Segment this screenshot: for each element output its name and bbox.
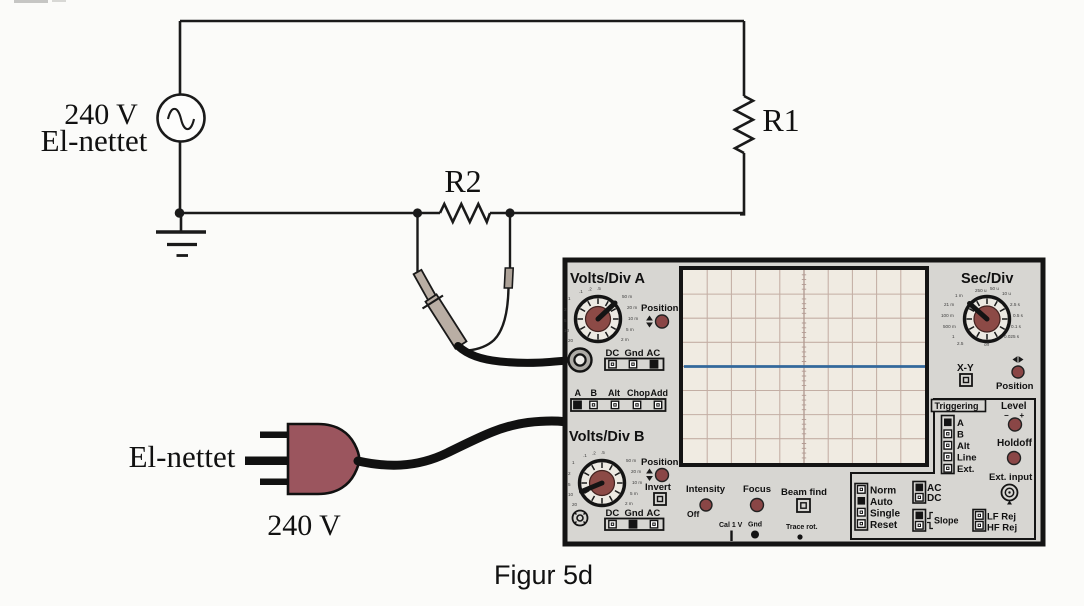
- svg-text:Figur 5d: Figur 5d: [494, 560, 593, 590]
- trigger mode column: [855, 484, 868, 531]
- ext input BNC: [1002, 485, 1018, 505]
- svg-text:240 V: 240 V: [267, 509, 341, 542]
- focus button: [751, 499, 764, 512]
- trigger coupling labels: [927, 483, 941, 504]
- svg-text:Volts/Div A: Volts/Div A: [570, 271, 645, 287]
- svg-text:.5: .5: [601, 450, 605, 455]
- probe ground wire from right node: [509, 213, 511, 268]
- svg-text:2.5 s: 2.5 s: [1010, 302, 1021, 307]
- svg-text:50 u: 50 u: [990, 286, 999, 291]
- position A arrows: [646, 316, 653, 328]
- svg-text:Alt: Alt: [957, 441, 971, 452]
- svg-text:A: A: [575, 388, 582, 398]
- ground: [156, 213, 206, 256]
- svg-text:Reset: Reset: [870, 520, 898, 531]
- svg-text:R1: R1: [762, 102, 799, 138]
- svg-text:20 m: 20 m: [627, 305, 637, 310]
- svg-text:Position: Position: [641, 303, 679, 314]
- scan smudge top left: [14, 0, 48, 3]
- mains plug prong bottom: [260, 479, 289, 486]
- svg-text:Triggering: Triggering: [935, 401, 979, 411]
- svg-text:2 m: 2 m: [621, 337, 629, 342]
- svg-text:1 m: 1 m: [955, 293, 963, 298]
- labels DC Gnd AC (ch A): [606, 348, 661, 359]
- svg-text:100 m: 100 m: [941, 313, 954, 318]
- node at source/ground: [175, 208, 185, 218]
- svg-text:1: 1: [572, 460, 575, 465]
- scope screen bezel: [681, 268, 927, 465]
- svg-text:R2: R2: [444, 163, 481, 199]
- svg-text:2: 2: [568, 471, 571, 476]
- svg-text:DC: DC: [927, 493, 941, 504]
- svg-text:Position: Position: [996, 381, 1034, 392]
- svg-text:Alt: Alt: [608, 388, 620, 398]
- wire left vertical lower: [179, 142, 182, 214]
- mains plug prong top: [260, 432, 289, 439]
- beam find button: [797, 499, 810, 512]
- svg-text:Gnd: Gnd: [748, 522, 762, 529]
- slope edge glyphs: [927, 513, 933, 529]
- probe A wire from left node: [416, 213, 418, 272]
- reject labels: [987, 512, 1017, 534]
- svg-text:21 m: 21 m: [944, 302, 954, 307]
- svg-text:10: 10: [568, 492, 574, 497]
- coupling bar B: [605, 519, 664, 531]
- labels DC Gnd AC (ch B): [606, 508, 661, 519]
- position A button: [656, 315, 669, 328]
- svg-text:−: −: [1004, 411, 1009, 420]
- svg-text:DC: DC: [606, 508, 620, 519]
- knob Volts/Div A: [576, 297, 621, 342]
- svg-text:10 u: 10 u: [1002, 291, 1011, 296]
- svg-text:Trace rot.: Trace rot.: [786, 524, 818, 531]
- intensity button: [700, 499, 712, 511]
- probe ground connector: [504, 268, 513, 288]
- wire left vertical upper: [179, 21, 182, 95]
- knob B tiny scale labels: [568, 450, 642, 507]
- svg-text:0.5 s: 0.5 s: [1013, 313, 1024, 318]
- svg-text:.2: .2: [592, 451, 596, 456]
- svg-text:10 m: 10 m: [628, 316, 638, 321]
- svg-text:.5: .5: [597, 286, 601, 291]
- svg-text:El-nettet: El-nettet: [41, 123, 148, 158]
- svg-text:20: 20: [568, 338, 574, 343]
- svg-text:Norm: Norm: [870, 486, 896, 497]
- resistor R2: [440, 204, 490, 222]
- svg-text:Off: Off: [687, 509, 699, 519]
- trigger L-box: [851, 399, 1035, 539]
- svg-text:Auto: Auto: [870, 497, 893, 508]
- svg-text:Invert: Invert: [645, 482, 672, 493]
- svg-text:Position: Position: [641, 457, 679, 468]
- svg-text:50 m: 50 m: [622, 294, 632, 299]
- holdoff button: [1008, 452, 1021, 465]
- wire top horizontal: [180, 20, 744, 23]
- svg-text:1: 1: [568, 296, 571, 301]
- BNC input A: [569, 349, 592, 372]
- svg-text:5 m: 5 m: [626, 327, 634, 332]
- position B button: [656, 469, 669, 482]
- svg-text:.1: .1: [579, 289, 583, 294]
- svg-text:Volts/Div B: Volts/Div B: [569, 429, 644, 445]
- svg-text:20 m: 20 m: [631, 469, 641, 474]
- svg-text:AC: AC: [647, 508, 661, 519]
- resistor R1: [735, 96, 753, 153]
- reject column: [973, 510, 986, 532]
- svg-text:+: +: [1020, 411, 1025, 420]
- BNC input B: [573, 511, 588, 526]
- svg-text:A: A: [957, 418, 964, 429]
- ac source V1: [158, 95, 205, 142]
- svg-text:0.025 s: 0.025 s: [1004, 334, 1020, 339]
- svg-text:Sec/Div: Sec/Div: [961, 271, 1013, 287]
- svg-text:Slope: Slope: [934, 516, 959, 526]
- probe A body: [414, 270, 467, 349]
- knob A tiny scale labels: [564, 286, 638, 343]
- svg-text:Holdoff: Holdoff: [997, 438, 1033, 449]
- svg-text:2: 2: [564, 307, 567, 312]
- svg-text:B: B: [591, 388, 598, 398]
- svg-text:.1: .1: [583, 453, 587, 458]
- mode bar: [571, 399, 666, 411]
- horizontal position arrows: [1013, 356, 1024, 363]
- svg-text:5 m: 5 m: [630, 491, 638, 496]
- svg-text:50 m: 50 m: [626, 458, 636, 463]
- svg-text:2 m: 2 m: [625, 501, 633, 506]
- level button: [1009, 418, 1022, 431]
- svg-text:Line: Line: [957, 453, 977, 464]
- svg-text:LF Rej: LF Rej: [987, 512, 1016, 523]
- level minus plus: [1004, 411, 1025, 420]
- svg-text:Gnd: Gnd: [625, 348, 644, 359]
- scope trace: [684, 365, 925, 368]
- labels A B Alt Chop Add: [575, 388, 669, 398]
- svg-text:Ext. input: Ext. input: [989, 472, 1033, 483]
- svg-text:B: B: [957, 430, 964, 441]
- mains plug body: [288, 424, 359, 494]
- knob sec tiny scale labels: [941, 286, 1024, 347]
- Triggering label box: [932, 400, 986, 412]
- svg-text:AC: AC: [647, 348, 661, 359]
- svg-text:Cal 1 V: Cal 1 V: [719, 522, 743, 529]
- slope column: [913, 510, 926, 532]
- svg-text:X-Y: X-Y: [957, 363, 974, 374]
- svg-text:DC: DC: [606, 348, 620, 359]
- svg-text:Add: Add: [651, 388, 669, 398]
- trigger source labels: [957, 418, 977, 475]
- mains power cable: [358, 421, 564, 465]
- svg-text:El-nettet: El-nettet: [129, 439, 236, 474]
- probe ground lead curve: [468, 288, 509, 351]
- svg-text:10: 10: [564, 328, 570, 333]
- svg-text:.2: .2: [588, 287, 592, 292]
- svg-text:250 u: 250 u: [975, 288, 987, 293]
- svg-text:Focus: Focus: [743, 484, 771, 495]
- X-Y button: [960, 374, 972, 386]
- svg-text:HF Rej: HF Rej: [987, 523, 1017, 534]
- scope screen graticule: [683, 270, 925, 463]
- svg-text:Beam find: Beam find: [781, 487, 827, 498]
- wire bottom left segment: [178, 212, 440, 215]
- svg-text:5: 5: [564, 318, 567, 323]
- node left of R2: [413, 208, 422, 217]
- cal terminal: [730, 531, 732, 542]
- wire bottom right segment: [490, 212, 744, 215]
- svg-text:500 m: 500 m: [943, 324, 956, 329]
- gnd terminal: [751, 531, 759, 539]
- oscilloscope panel: [565, 260, 1043, 544]
- svg-text:Intensity: Intensity: [686, 484, 726, 495]
- invert button: [654, 493, 666, 505]
- node right of R2: [505, 208, 514, 217]
- trigger source column: [942, 416, 955, 474]
- horizontal position button: [1012, 366, 1024, 378]
- svg-text:off: off: [984, 342, 990, 347]
- wire right vertical upper: [743, 21, 746, 96]
- trigger mode labels: [870, 486, 900, 532]
- wire right vertical lower: [740, 153, 744, 214]
- trigger coupling column: [913, 482, 926, 504]
- svg-text:Chop: Chop: [627, 388, 650, 398]
- svg-text:5: 5: [568, 482, 571, 487]
- svg-text:2.5: 2.5: [957, 341, 964, 346]
- svg-text:Single: Single: [870, 509, 900, 520]
- svg-text:Ext.: Ext.: [957, 464, 974, 475]
- svg-text:10 m: 10 m: [632, 480, 642, 485]
- probe coax cable to scope input A: [458, 346, 576, 363]
- mains plug prong middle: [245, 457, 289, 466]
- trace rot terminal: [797, 534, 802, 539]
- knob Sec/Div: [965, 297, 1010, 342]
- svg-text:0.1 s: 0.1 s: [1011, 324, 1022, 329]
- position B arrows: [646, 469, 653, 482]
- coupling bar A: [605, 359, 664, 371]
- svg-text:20: 20: [572, 502, 578, 507]
- svg-text:1: 1: [952, 334, 955, 339]
- knob Volts/Div B: [580, 461, 625, 506]
- graticule center ticks: [802, 275, 806, 458]
- svg-text:Gnd: Gnd: [625, 508, 644, 519]
